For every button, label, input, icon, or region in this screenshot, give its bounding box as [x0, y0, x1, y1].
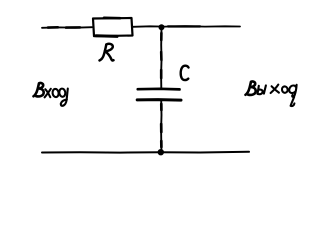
node: top junction — [159, 24, 165, 30]
wire: resistor to right output — [133, 25, 240, 28]
node: bottom junction — [158, 149, 164, 155]
resistor R1 body — [93, 18, 133, 37]
label Выход (output) — [246, 82, 297, 107]
wire: junction down to capacitor — [160, 28, 162, 88]
wire: top-left input wire — [42, 26, 92, 29]
label C — [181, 66, 189, 80]
wire: capacitor down to bottom rail — [160, 101, 162, 151]
capacitor C top plate — [138, 87, 180, 90]
capacitor C bottom plate — [137, 98, 181, 102]
label Вход (input) — [34, 83, 68, 106]
wire: bottom rail — [42, 151, 249, 154]
label R — [100, 44, 114, 61]
